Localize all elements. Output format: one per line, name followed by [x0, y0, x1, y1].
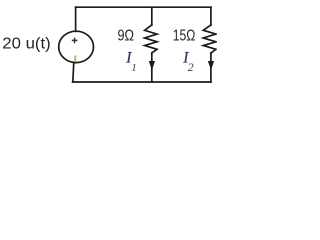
wire source top lead [75, 7, 77, 31]
arrow I2 head [208, 61, 214, 70]
wire top [76, 6, 211, 8]
resistor R1 zigzag 9ohm [145, 25, 157, 53]
wire R2 bottom lead [210, 53, 212, 82]
resistor R2 zigzag 15ohm [203, 25, 216, 53]
svg-text:9Ω: 9Ω [118, 27, 135, 44]
wire R1 bottom lead [151, 53, 153, 82]
svg-text:15Ω: 15Ω [173, 27, 196, 44]
arrow I1 head [149, 61, 155, 70]
svg-text:20 u(t): 20 u(t) [2, 35, 50, 52]
svg-text:2: 2 [188, 60, 194, 74]
wire R1 top lead [151, 7, 153, 25]
wire bottom [73, 81, 211, 83]
plus sign of source [72, 38, 78, 44]
wire source bottom lead [73, 62, 74, 82]
svg-text:1: 1 [131, 62, 137, 74]
voltage source V1 circle [59, 31, 94, 62]
wire right edge top lead [210, 7, 212, 25]
minus mark of source (vertical dash) [74, 56, 76, 62]
